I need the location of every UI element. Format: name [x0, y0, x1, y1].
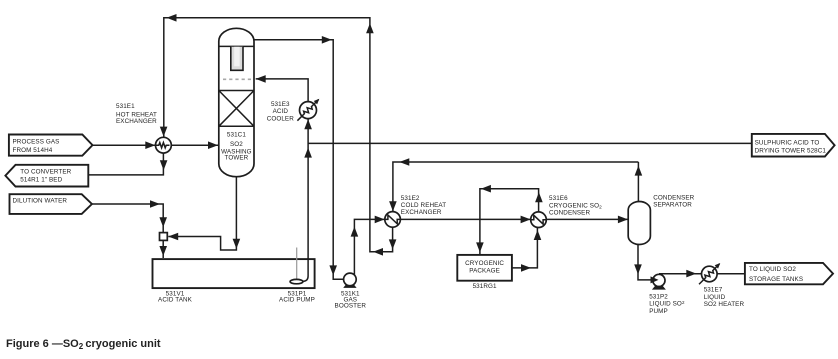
svg-text:TO CONVERTER: TO CONVERTER — [20, 169, 71, 176]
svg-text:EXCHANGER: EXCHANGER — [116, 118, 157, 125]
svg-text:ACID: ACID — [273, 108, 289, 115]
svg-text:STORAGE TANKS: STORAGE TANKS — [749, 276, 803, 283]
svg-text:BOOSTER: BOOSTER — [335, 303, 367, 310]
svg-text:531P2: 531P2 — [649, 294, 668, 301]
svg-text:COLD REHEAT: COLD REHEAT — [401, 202, 446, 209]
svg-text:CRYOGENIC: CRYOGENIC — [465, 260, 504, 267]
svg-text:531E1: 531E1 — [116, 103, 135, 110]
svg-text:FROM 514H4: FROM 514H4 — [13, 147, 53, 154]
svg-text:531E6: 531E6 — [549, 195, 568, 202]
svg-text:514R1 1" BED: 514R1 1" BED — [20, 177, 62, 184]
svg-text:ACID PUMP: ACID PUMP — [279, 297, 315, 304]
svg-text:CONDENSER: CONDENSER — [653, 194, 694, 201]
svg-text:LIQUID SO2: LIQUID SO2 — [649, 300, 685, 308]
svg-text:TO LIQUID SO2: TO LIQUID SO2 — [749, 266, 796, 273]
svg-text:SO2 HEATER: SO2 HEATER — [704, 301, 745, 308]
svg-text:DRYING TOWER 528C1: DRYING TOWER 528C1 — [755, 148, 827, 155]
svg-text:531E7: 531E7 — [704, 287, 723, 294]
svg-text:CONDENSER: CONDENSER — [549, 209, 590, 216]
svg-text:531E3: 531E3 — [271, 101, 290, 108]
svg-text:SEPARATOR: SEPARATOR — [653, 202, 692, 209]
svg-text:SULPHURIC ACID TO: SULPHURIC ACID TO — [755, 139, 820, 146]
svg-text:PROCESS GAS: PROCESS GAS — [13, 139, 60, 146]
svg-text:DILUTION WATER: DILUTION WATER — [13, 198, 68, 205]
svg-text:531C1: 531C1 — [227, 131, 246, 138]
svg-text:PACKAGE: PACKAGE — [469, 268, 500, 275]
svg-text:PUMP: PUMP — [649, 308, 668, 315]
svg-text:Figure 6 —SO2 cryogenic unit: Figure 6 —SO2 cryogenic unit — [6, 338, 161, 351]
svg-text:LIQUID: LIQUID — [704, 294, 726, 301]
svg-text:TOWER: TOWER — [224, 155, 248, 162]
svg-text:ACID TANK: ACID TANK — [158, 297, 193, 304]
svg-text:EXCHANGER: EXCHANGER — [401, 209, 442, 216]
svg-text:531E2: 531E2 — [401, 195, 420, 202]
svg-text:COOLER: COOLER — [267, 116, 295, 123]
svg-text:531RG1: 531RG1 — [473, 283, 497, 290]
svg-text:SO2: SO2 — [230, 141, 243, 148]
